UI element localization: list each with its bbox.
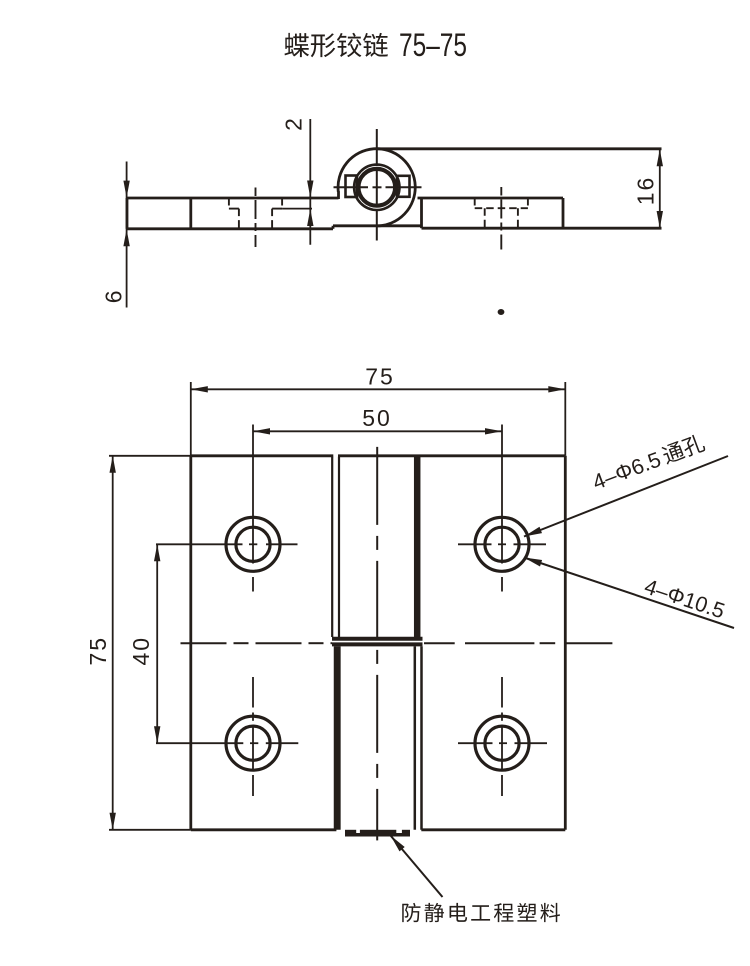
svg-text:75–75: 75–75 <box>399 27 467 63</box>
svg-text:16: 16 <box>633 176 659 206</box>
svg-text:4–Φ6.5: 4–Φ6.5 <box>589 447 664 494</box>
svg-text:6: 6 <box>101 290 127 303</box>
svg-text:2: 2 <box>281 118 307 131</box>
svg-text:40: 40 <box>128 636 154 666</box>
svg-text:75: 75 <box>365 364 395 390</box>
svg-text:75: 75 <box>85 636 111 666</box>
svg-text:4–Φ10.5: 4–Φ10.5 <box>641 574 727 623</box>
svg-text:50: 50 <box>362 405 392 431</box>
